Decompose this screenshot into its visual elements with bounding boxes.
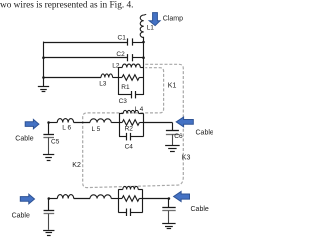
- svg-text:wo wires is represented as in: wo wires is represented as in Fig. 4.: [0, 0, 134, 10]
- svg-text:C4: C4: [125, 144, 134, 151]
- svg-text:C2: C2: [116, 51, 125, 58]
- svg-text:C1: C1: [118, 35, 127, 42]
- svg-text:C6: C6: [174, 133, 183, 140]
- svg-text:Clamp: Clamp: [163, 16, 183, 23]
- svg-text:Cable: Cable: [191, 206, 209, 213]
- svg-text:K3: K3: [182, 155, 191, 162]
- svg-text:L 4: L 4: [135, 106, 144, 113]
- svg-text:L1: L1: [147, 25, 155, 32]
- svg-text:C3: C3: [119, 98, 128, 105]
- svg-text:L3: L3: [99, 80, 107, 87]
- svg-text:K2: K2: [72, 162, 81, 169]
- svg-text:L 5: L 5: [92, 126, 101, 133]
- svg-text:Cable: Cable: [12, 213, 30, 220]
- svg-text:L 6: L 6: [62, 125, 71, 132]
- svg-text:Cable: Cable: [196, 129, 214, 136]
- svg-text:C5: C5: [51, 139, 60, 146]
- svg-text:K1: K1: [168, 83, 177, 90]
- svg-text:R1: R1: [121, 84, 130, 91]
- svg-text:Cable: Cable: [15, 136, 33, 143]
- svg-text:L2: L2: [112, 62, 120, 69]
- svg-text:R2: R2: [125, 125, 134, 132]
